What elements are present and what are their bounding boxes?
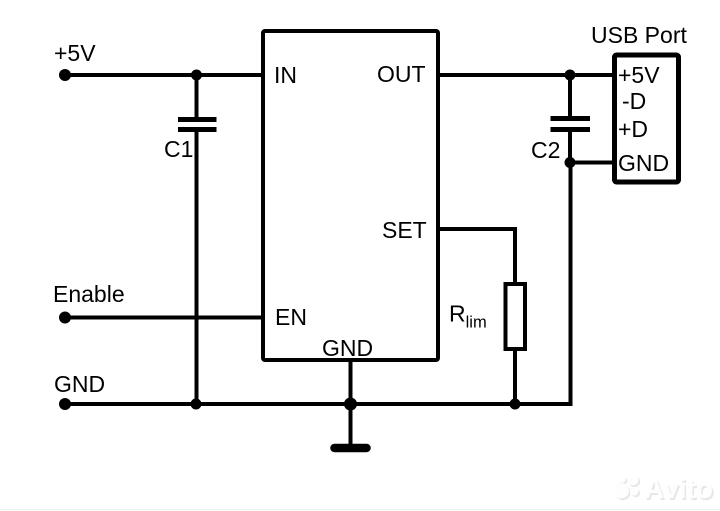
junction OUT / C2 — [565, 70, 576, 81]
svg-text:USB Port: USB Port — [591, 22, 687, 48]
regulator U1 body — [263, 31, 438, 360]
wire Rlim bottom lead — [513, 349, 517, 404]
svg-text:C2: C2 — [531, 137, 560, 163]
svg-text:GND: GND — [322, 335, 373, 361]
node GND terminal — [59, 398, 71, 410]
junction GND / C1 — [191, 399, 202, 410]
junction +5V / C1 — [191, 70, 202, 81]
wire to USB GND pin — [570, 161, 614, 165]
svg-text:-D: -D — [622, 88, 646, 114]
capacitor C1 — [178, 120, 217, 130]
node Enable terminal — [59, 312, 71, 324]
svg-text:SET: SET — [382, 217, 427, 243]
wire C1 bottom lead — [195, 131, 199, 404]
bottom border line — [0, 509, 720, 511]
wire Enable to EN — [65, 316, 263, 320]
svg-text:OUT: OUT — [377, 61, 426, 87]
svg-text:C1: C1 — [164, 136, 193, 162]
junction GND / Rlim — [510, 399, 521, 410]
ground symbol — [335, 444, 367, 453]
capacitor C2 — [551, 119, 591, 130]
watermark Avito logo circles — [614, 474, 640, 500]
wire C2 top lead — [568, 75, 572, 117]
svg-text:+5V: +5V — [618, 62, 660, 88]
junction GND / U1 ground stub — [344, 398, 357, 411]
svg-text:GND: GND — [54, 371, 105, 397]
wire GND rail — [65, 402, 571, 406]
svg-text:EN: EN — [275, 304, 307, 330]
wire +5V to IN — [65, 73, 263, 77]
wire U1 GND stub — [349, 360, 353, 444]
wire OUT to USB +5V — [438, 73, 614, 77]
svg-text:Enable: Enable — [53, 281, 125, 307]
resistor Rlim body — [506, 284, 526, 349]
svg-text:+5V: +5V — [54, 40, 96, 66]
wire C1 top lead — [195, 75, 199, 118]
wire C2 bottom lead — [568, 131, 572, 163]
junction C2 / USB GND — [565, 157, 576, 168]
svg-text:Avito: Avito — [644, 473, 713, 504]
watermark Avito text — [644, 473, 715, 506]
svg-text:GND: GND — [618, 150, 669, 176]
wire ground riser to USB GND — [569, 163, 573, 407]
svg-text:+D: +D — [618, 116, 648, 142]
node +5V terminal — [59, 69, 71, 81]
USB port connector J1 — [615, 55, 679, 182]
svg-text:IN: IN — [274, 62, 297, 88]
wire SET to Rlim (horizontal) — [438, 227, 517, 231]
svg-text:Rlim: Rlim — [449, 301, 487, 332]
wire Rlim top lead — [513, 227, 517, 284]
